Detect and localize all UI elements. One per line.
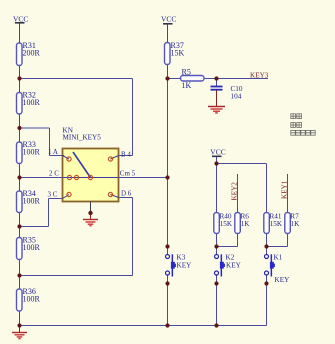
svg-text:3 C: 3 C bbox=[48, 190, 58, 198]
svg-text:1K: 1K bbox=[182, 81, 192, 90]
svg-text:KEY: KEY bbox=[177, 262, 193, 270]
svg-text:200R: 200R bbox=[23, 49, 41, 58]
svg-text:K2: K2 bbox=[226, 254, 235, 262]
svg-text:KEY: KEY bbox=[275, 276, 291, 284]
svg-text:1K: 1K bbox=[291, 220, 301, 228]
svg-text:15K: 15K bbox=[220, 220, 233, 228]
svg-text:R5: R5 bbox=[182, 68, 191, 77]
svg-text:KEY3: KEY3 bbox=[250, 71, 269, 79]
svg-text:KEY2: KEY2 bbox=[231, 182, 239, 201]
svg-text:100R: 100R bbox=[23, 197, 41, 206]
svg-text:100R: 100R bbox=[23, 243, 41, 252]
svg-text:VCC: VCC bbox=[210, 148, 225, 157]
svg-text:100R: 100R bbox=[23, 295, 41, 304]
svg-text:100R: 100R bbox=[23, 98, 41, 107]
svg-text:KEY: KEY bbox=[226, 262, 242, 270]
svg-text:Cm 5: Cm 5 bbox=[120, 169, 136, 177]
svg-text:D 6: D 6 bbox=[121, 189, 132, 197]
svg-text:VCC: VCC bbox=[13, 15, 28, 24]
svg-text:1 A: 1 A bbox=[48, 148, 58, 156]
svg-text:15K: 15K bbox=[171, 49, 185, 58]
svg-text:2 C: 2 C bbox=[49, 169, 59, 177]
svg-text:100R: 100R bbox=[23, 148, 41, 157]
svg-text:B 4: B 4 bbox=[121, 150, 131, 158]
svg-text:K1: K1 bbox=[274, 254, 283, 262]
svg-text:KEY1: KEY1 bbox=[281, 180, 289, 199]
svg-text:K3: K3 bbox=[177, 254, 186, 262]
svg-text:MINI_KEY5: MINI_KEY5 bbox=[63, 133, 102, 141]
svg-text:VCC: VCC bbox=[161, 15, 176, 24]
svg-text:104: 104 bbox=[231, 93, 242, 101]
svg-text:1K: 1K bbox=[241, 220, 251, 228]
svg-text:15K: 15K bbox=[270, 220, 283, 228]
